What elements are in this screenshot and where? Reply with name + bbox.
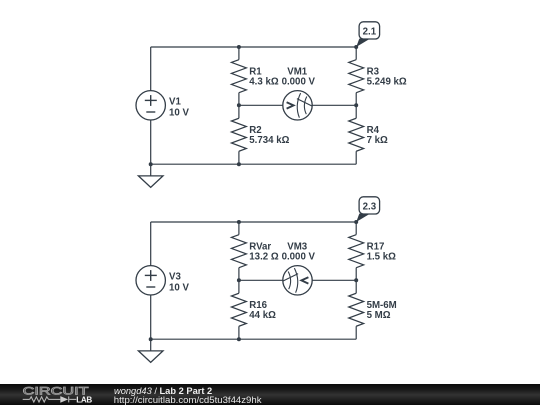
voltage source V3 [136,266,165,295]
wire top rail [151,46,357,48]
svg-text:0.000 V: 0.000 V [282,76,316,87]
label R3 [367,66,407,87]
resistor R1 [231,47,246,105]
wire voltmeter right [312,279,356,281]
label RVar [249,241,279,262]
resistor R3 [349,47,364,105]
label R1 [249,66,279,87]
label R16 [249,300,276,321]
wire left branch lower [150,295,152,339]
svg-text:1.5 kΩ: 1.5 kΩ [367,251,397,262]
resistor R2 [231,105,246,164]
logo diode triangle [60,396,68,403]
wire top rail [151,221,357,223]
label R17 [367,241,397,262]
junction bottom-mid [237,337,241,341]
resistor 5M-6M [349,280,364,339]
svg-text:5.249 kΩ: 5.249 kΩ [367,76,407,87]
svg-text:LAB: LAB [76,396,92,405]
junction top-mid [237,220,241,224]
svg-text:V3: V3 [169,272,181,283]
junction top-mid [237,45,241,49]
svg-text:5.734 kΩ: 5.734 kΩ [249,135,289,146]
ground ground [138,339,163,362]
junction bottom-left [149,162,153,166]
svg-text:10 V: 10 V [169,108,189,119]
wire voltmeter right [312,104,356,106]
node flag node 2.1 [356,22,379,47]
resistor R17 [349,222,364,280]
label R4 [367,125,388,146]
svg-text:0.000 V: 0.000 V [282,251,316,262]
label V1 [169,97,189,119]
ground ground [138,164,163,187]
wire left branch lower [150,120,152,164]
logo resistor-diode wire [23,396,77,402]
junction bottom-mid [237,162,241,166]
voltmeter VM1 [283,91,312,120]
svg-text:7 kΩ: 7 kΩ [367,135,388,146]
junction mid-left [237,278,241,282]
svg-text:V1: V1 [169,97,181,108]
svg-text:4.3 kΩ: 4.3 kΩ [249,76,279,87]
footer title line [114,386,212,396]
wire voltmeter left [239,104,283,106]
label VM3 [282,241,316,262]
voltage source V1 [136,91,165,120]
junction mid-left [237,103,241,107]
CircuitLab logo [0,384,115,405]
wire left branch upper [150,222,152,266]
junction mid-right [354,278,358,282]
junction top-right node [354,45,358,49]
node flag node 2.3 [356,197,379,222]
svg-text:2.1: 2.1 [363,26,377,37]
footer url line [114,395,262,406]
svg-text:44 kΩ: 44 kΩ [249,310,276,321]
label R2 [249,125,289,146]
svg-text:13.2 Ω: 13.2 Ω [249,251,279,262]
svg-text:10 V: 10 V [169,283,189,294]
voltmeter VM3 [283,266,312,295]
resistor R4 [349,105,364,164]
wire voltmeter left [239,279,283,281]
resistor RVar [231,222,246,280]
label 5M-6M [367,300,397,321]
wire bottom rail [151,163,357,165]
resistor R16 [231,280,246,339]
junction top-right node [354,220,358,224]
label V3 [169,272,189,294]
junction bottom-left [149,337,153,341]
svg-text:2.3: 2.3 [363,201,377,212]
label VM1 [282,66,316,87]
wire left branch upper [150,47,152,91]
svg-text:5 MΩ: 5 MΩ [367,310,391,321]
wire bottom rail [151,338,357,340]
junction mid-right [354,103,358,107]
